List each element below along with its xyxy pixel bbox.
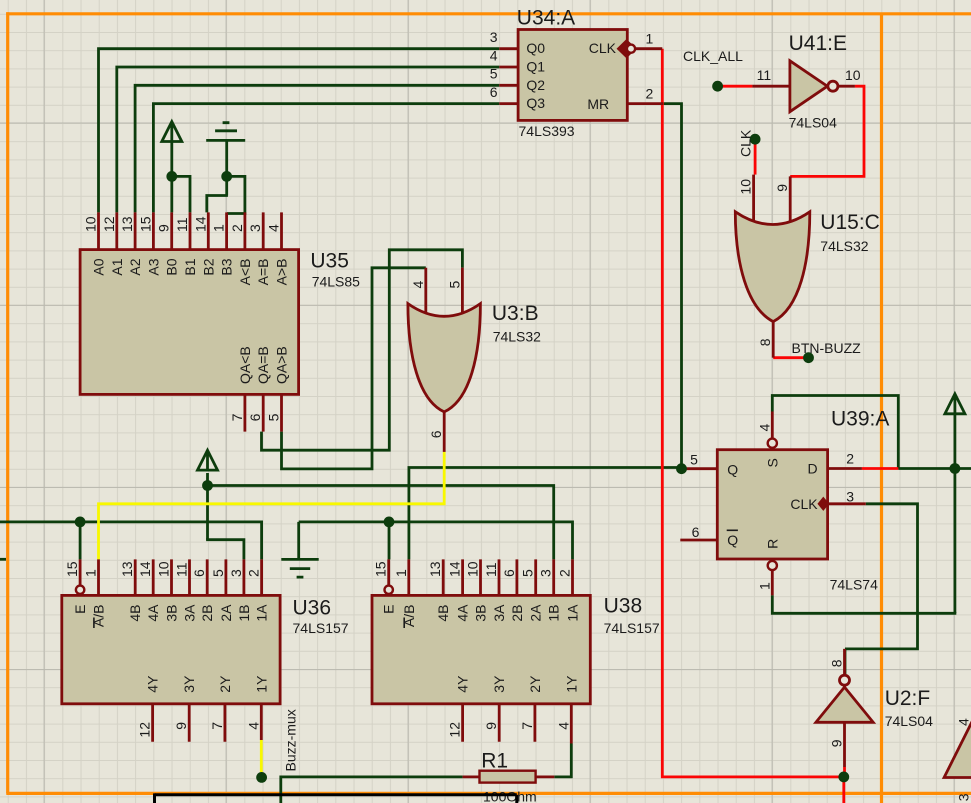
svg-text:15: 15 (373, 561, 389, 577)
U2:F pin 9 lead (843, 722, 846, 767)
svg-text:3: 3 (846, 488, 854, 504)
svg-text:74LS32: 74LS32 (820, 238, 868, 254)
svg-text:6: 6 (490, 84, 498, 100)
svg-text:74LS32: 74LS32 (493, 329, 541, 345)
svg-text:2Y: 2Y (217, 675, 233, 693)
terminal dot CLK (750, 134, 761, 145)
svg-text:3: 3 (490, 29, 498, 45)
svg-text:15: 15 (64, 561, 80, 577)
svg-text:B0: B0 (164, 258, 180, 275)
svg-text:9: 9 (156, 224, 172, 232)
svg-text:6: 6 (247, 413, 263, 421)
svg-text:1Y: 1Y (253, 675, 269, 693)
svg-text:1: 1 (756, 582, 772, 590)
U35 bottom pins 7 6 5 (245, 394, 282, 431)
svg-text:4Y: 4Y (455, 675, 471, 693)
svg-text:A=B: A=B (255, 259, 271, 286)
svg-text:R1: R1 (481, 750, 508, 773)
svg-text:A/B: A/B (401, 605, 417, 628)
wire U34.MR net down to U39 Q node (663, 104, 682, 469)
svg-text:1B: 1B (236, 605, 252, 622)
svg-text:2Y: 2Y (527, 675, 543, 693)
svg-text:13: 13 (427, 561, 443, 577)
svg-text:2B: 2B (509, 605, 525, 622)
svg-text:1A: 1A (254, 604, 270, 622)
svg-text:R: R (764, 539, 780, 549)
wire D-net to right edge (898, 467, 971, 470)
svg-text:12: 12 (447, 722, 463, 738)
svg-text:3: 3 (228, 569, 244, 577)
svg-text:Buzz-mux: Buzz-mux (283, 709, 299, 771)
wire Q1 U34 to U35.A1 (117, 67, 500, 212)
svg-text:A/B: A/B (91, 605, 107, 628)
svg-text:1: 1 (393, 569, 409, 577)
svg-text:9: 9 (829, 739, 845, 747)
svg-text:A>B: A>B (274, 259, 290, 286)
svg-text:4: 4 (555, 722, 571, 730)
or-gate U15:C body (735, 212, 810, 322)
U39 pin S bubble (768, 439, 777, 448)
wire E-net left from edge (0, 522, 262, 560)
svg-text:74LS04: 74LS04 (789, 115, 837, 131)
wire yellow U3B output net to U36.A/B (99, 452, 445, 560)
wire ground1 stem (225, 140, 228, 195)
wire E-net branch to U36.E (79, 522, 82, 560)
svg-text:3: 3 (956, 793, 971, 801)
svg-text:2: 2 (646, 85, 654, 101)
mux U38 body (372, 595, 590, 703)
U36 bottom pins (153, 704, 262, 742)
wire left edge stub (0, 558, 6, 561)
wire U38.1Y to R1 right (554, 744, 571, 777)
svg-text:4: 4 (756, 424, 772, 432)
svg-text:CLK: CLK (738, 129, 754, 157)
svg-text:11: 11 (174, 562, 190, 577)
svg-text:4B: 4B (127, 605, 143, 622)
ground top symbol (206, 123, 245, 141)
junction dot power1 (166, 171, 177, 182)
wire CLK_ALL red from terminal to U41 input (718, 85, 753, 88)
wire U39.S net (772, 396, 898, 469)
svg-text:8: 8 (757, 338, 773, 346)
svg-text:1: 1 (211, 224, 227, 232)
svg-text:QA=B: QA=B (255, 346, 271, 384)
svg-text:5: 5 (210, 569, 226, 577)
wire U15C output red to BTN-BUZZ terminal (773, 356, 808, 359)
svg-text:6: 6 (428, 430, 444, 438)
svg-text:U34:A: U34:A (517, 6, 575, 29)
svg-text:4B: 4B (435, 605, 451, 622)
svg-text:Q: Q (727, 532, 738, 548)
U3:B input pins 4 5 (426, 268, 463, 313)
U39 pin CLK lead (828, 502, 866, 505)
svg-text:A2: A2 (127, 258, 143, 275)
wire power1 stem to U35.B0 (170, 142, 173, 213)
wire Q-net horizontal U38 select (409, 466, 680, 559)
svg-text:3B: 3B (473, 605, 489, 622)
svg-text:CLK: CLK (589, 40, 617, 56)
svg-text:B3: B3 (219, 258, 235, 275)
or-gate U3:B body (408, 304, 481, 412)
svg-text:11: 11 (174, 217, 190, 232)
U34 pin CLK lead (635, 47, 662, 50)
U39 pin R lead (771, 570, 774, 595)
svg-text:12: 12 (137, 722, 153, 738)
svg-text:9: 9 (483, 722, 499, 730)
svg-text:BTN-BUZZ: BTN-BUZZ (792, 340, 862, 356)
svg-text:2B: 2B (199, 605, 215, 622)
svg-text:9: 9 (774, 184, 790, 192)
U35 top pins (99, 212, 282, 249)
svg-text:3: 3 (538, 569, 554, 577)
svg-text:CLK_ALL: CLK_ALL (683, 48, 743, 64)
svg-text:MR: MR (587, 96, 609, 112)
border orange left (6, 12, 9, 793)
svg-text:U15:C: U15:C (820, 211, 880, 234)
junction dot ground1 (221, 171, 232, 182)
U38 pin E bubble (385, 586, 393, 594)
svg-text:10: 10 (845, 67, 861, 83)
U39 pin R bubble (768, 561, 777, 570)
svg-text:7: 7 (229, 413, 245, 421)
svg-text:Q1: Q1 (526, 59, 545, 75)
border orange right inner (880, 14, 883, 803)
svg-text:3A: 3A (491, 604, 507, 622)
svg-text:7: 7 (209, 722, 225, 730)
U36 top pins (80, 559, 262, 595)
wire gnd2 net to U38.1A (299, 522, 573, 560)
svg-text:14: 14 (447, 561, 463, 577)
wire U35.p5 to U3B.p4 (282, 268, 426, 469)
svg-text:2A: 2A (528, 604, 544, 622)
U38 bottom pins (463, 704, 572, 744)
svg-text:Q2: Q2 (526, 77, 545, 93)
terminal dot Buzz-mux (256, 772, 267, 783)
wire U35.p6 to U3B.p5 (262, 250, 463, 450)
U39 pin S lead (771, 412, 774, 439)
flip-flop U39:A body (717, 450, 827, 559)
svg-text:10: 10 (156, 561, 172, 577)
svg-text:4Y: 4Y (145, 675, 161, 693)
wire U39.CLK to U2F.p8 (845, 504, 918, 675)
R1 right lead (536, 776, 555, 779)
junction dot Q net (676, 463, 687, 474)
power arrow top (B0/B1) (162, 122, 182, 142)
terminal dot BTN-BUZZ (803, 352, 814, 363)
wire ground1 jog to U35.B2 (207, 196, 228, 213)
svg-text:2: 2 (846, 451, 854, 467)
svg-text:4: 4 (490, 47, 498, 63)
svg-text:10: 10 (83, 216, 99, 232)
svg-text:1Y: 1Y (563, 675, 579, 693)
svg-text:U41:E: U41:E (789, 32, 847, 55)
wire R1 left to bottom edge (281, 777, 463, 803)
ground symbol near U36 (281, 522, 318, 577)
U15:C input pins 10 9 (754, 175, 791, 221)
title block black divider (515, 795, 518, 803)
U34 pin MR lead (627, 102, 663, 105)
wire power3 stem down to R-net (954, 413, 957, 614)
svg-text:3B: 3B (164, 605, 180, 622)
wire power2 rail vertical (206, 473, 209, 540)
svg-text:U2:F: U2:F (885, 687, 931, 710)
svg-text:6: 6 (692, 524, 700, 540)
svg-text:U35: U35 (310, 250, 349, 273)
svg-text:13: 13 (119, 216, 135, 232)
svg-text:7: 7 (519, 722, 535, 730)
junction dot red net bottom (838, 772, 849, 783)
junction dot power rail right (950, 463, 961, 474)
svg-text:10: 10 (465, 561, 481, 577)
comparator U35 body (80, 250, 299, 395)
wire U2F.p9 red segment to node (843, 767, 846, 777)
U2:F bubble (840, 675, 850, 685)
U3:B output pin 6 (443, 412, 446, 452)
svg-text:3Y: 3Y (181, 675, 197, 693)
svg-text:5: 5 (520, 569, 536, 577)
U36 pin E bubble (76, 586, 84, 594)
svg-text:14: 14 (137, 561, 153, 577)
U41:E output lead (838, 85, 855, 88)
wire Q2 U34 to U35.A2 (135, 85, 499, 212)
svg-text:1: 1 (646, 31, 654, 47)
R1 left lead (463, 776, 480, 779)
svg-text:Q: Q (727, 462, 738, 478)
mux U36 body (62, 595, 280, 703)
svg-text:8: 8 (829, 659, 845, 667)
counter U34:A body (518, 30, 627, 121)
U41:E input lead (752, 85, 790, 88)
svg-text:3Y: 3Y (491, 675, 507, 693)
svg-text:S: S (764, 458, 780, 467)
border orange top (6, 12, 971, 15)
U41:E bubble (828, 81, 838, 91)
svg-text:2: 2 (229, 224, 245, 232)
svg-text:9: 9 (173, 722, 189, 730)
svg-text:74LS157: 74LS157 (604, 620, 660, 636)
svg-text:11: 11 (483, 562, 499, 577)
svg-text:CLK: CLK (790, 496, 818, 512)
svg-text:10: 10 (738, 179, 754, 195)
svg-text:4A: 4A (145, 604, 161, 622)
U39 pin Qbar lead (680, 539, 717, 542)
corner inverter body partial (944, 715, 971, 778)
U39 pin Q lead (683, 467, 717, 470)
svg-text:74LS85: 74LS85 (312, 273, 360, 289)
wire U39.D red segment crossing border (862, 467, 898, 470)
svg-text:74LS04: 74LS04 (885, 713, 933, 729)
svg-text:1A: 1A (565, 604, 581, 622)
svg-text:A0: A0 (91, 258, 107, 275)
wire yellow Buzz-mux from U36.1Y to terminal (260, 740, 263, 772)
svg-text:4: 4 (410, 281, 426, 289)
svg-text:6: 6 (191, 569, 207, 577)
wire power1 branch to U35.B1 (172, 176, 190, 212)
svg-text:QA<B: QA<B (237, 346, 253, 384)
title block black top edge (155, 793, 517, 796)
title block black left edge (153, 793, 156, 803)
svg-text:U38: U38 (604, 595, 643, 618)
wire gnd2 branch to U38.E (388, 522, 391, 560)
wire Q0 U34 to U35.A0 (99, 49, 500, 213)
junction dot power rail mid (202, 480, 213, 491)
power arrow right (U39 rail) (945, 394, 965, 414)
border orange bottom (6, 792, 971, 795)
junction dot U36.E net (75, 517, 86, 528)
svg-text:A3: A3 (145, 258, 161, 275)
svg-text:12: 12 (101, 216, 117, 232)
wire U41 output red loop to U15C.p9 (790, 86, 864, 176)
svg-text:74LS157: 74LS157 (293, 620, 349, 636)
svg-text:QA>B: QA>B (274, 346, 290, 384)
wire CLK terminal red down to U15C.p10 (754, 139, 757, 174)
svg-text:15: 15 (137, 216, 153, 232)
wire power2 rail to U38.1B (208, 486, 554, 560)
inverter U41:E body (790, 61, 828, 112)
svg-text:Q0: Q0 (526, 40, 545, 56)
wire R-net to U39.R (772, 595, 956, 613)
svg-text:Q3: Q3 (526, 95, 545, 111)
svg-text:13: 13 (119, 561, 135, 577)
U15:C output pin 8 (772, 322, 775, 358)
U34 pin CLK diamond (618, 40, 635, 57)
svg-text:5: 5 (690, 452, 698, 468)
svg-text:1: 1 (83, 569, 99, 577)
svg-text:3A: 3A (182, 604, 198, 622)
svg-text:B1: B1 (182, 258, 198, 275)
svg-text:74LS74: 74LS74 (830, 577, 878, 593)
terminal dot CLK_ALL (712, 81, 723, 92)
svg-text:D: D (808, 461, 818, 477)
svg-text:4: 4 (266, 224, 282, 232)
svg-text:E: E (72, 605, 88, 614)
svg-text:U39:A: U39:A (831, 407, 889, 430)
svg-text:2A: 2A (218, 604, 234, 622)
svg-text:U36: U36 (293, 596, 332, 619)
svg-text:5: 5 (266, 413, 282, 421)
svg-text:14: 14 (192, 216, 208, 232)
svg-text:B2: B2 (200, 258, 216, 275)
resistor R1 body (480, 771, 536, 783)
svg-text:1B: 1B (546, 605, 562, 622)
svg-text:A<B: A<B (237, 259, 253, 286)
svg-text:11: 11 (757, 67, 772, 83)
svg-text:E: E (381, 605, 397, 614)
svg-text:A1: A1 (109, 258, 125, 275)
power arrow mid (rail) (198, 450, 218, 470)
U39 pin CLK chevron (819, 498, 828, 509)
svg-text:74LS393: 74LS393 (519, 123, 575, 139)
svg-text:5: 5 (490, 66, 498, 82)
U38 top pins (389, 559, 573, 595)
wire power2 rail jog to U36.1B (206, 540, 244, 560)
svg-text:4: 4 (245, 722, 261, 730)
U34 pin CLK bubble (627, 45, 635, 53)
U2:F pin 8 lead (843, 649, 846, 675)
U34 pins Q0-Q3 (499, 49, 518, 104)
inverter U2:F body (816, 687, 873, 722)
junction dot U38.E net (384, 517, 395, 528)
wire ground1 branch to U35.B3 (227, 176, 247, 213)
wire CLK1 long red U34.CLK down and across to node (662, 49, 844, 803)
svg-text:4A: 4A (455, 604, 471, 622)
svg-text:6: 6 (501, 569, 517, 577)
wire Q3 U34 to U35.A3 (153, 104, 499, 213)
svg-text:5: 5 (446, 281, 462, 289)
U39 pin D lead (828, 467, 862, 470)
svg-text:2: 2 (557, 569, 573, 577)
svg-text:U3:B: U3:B (492, 302, 539, 325)
svg-text:2: 2 (246, 569, 262, 577)
RED-YELLOW-WIRES (99, 49, 899, 803)
svg-text:3: 3 (247, 224, 263, 232)
svg-text:4: 4 (956, 718, 971, 726)
